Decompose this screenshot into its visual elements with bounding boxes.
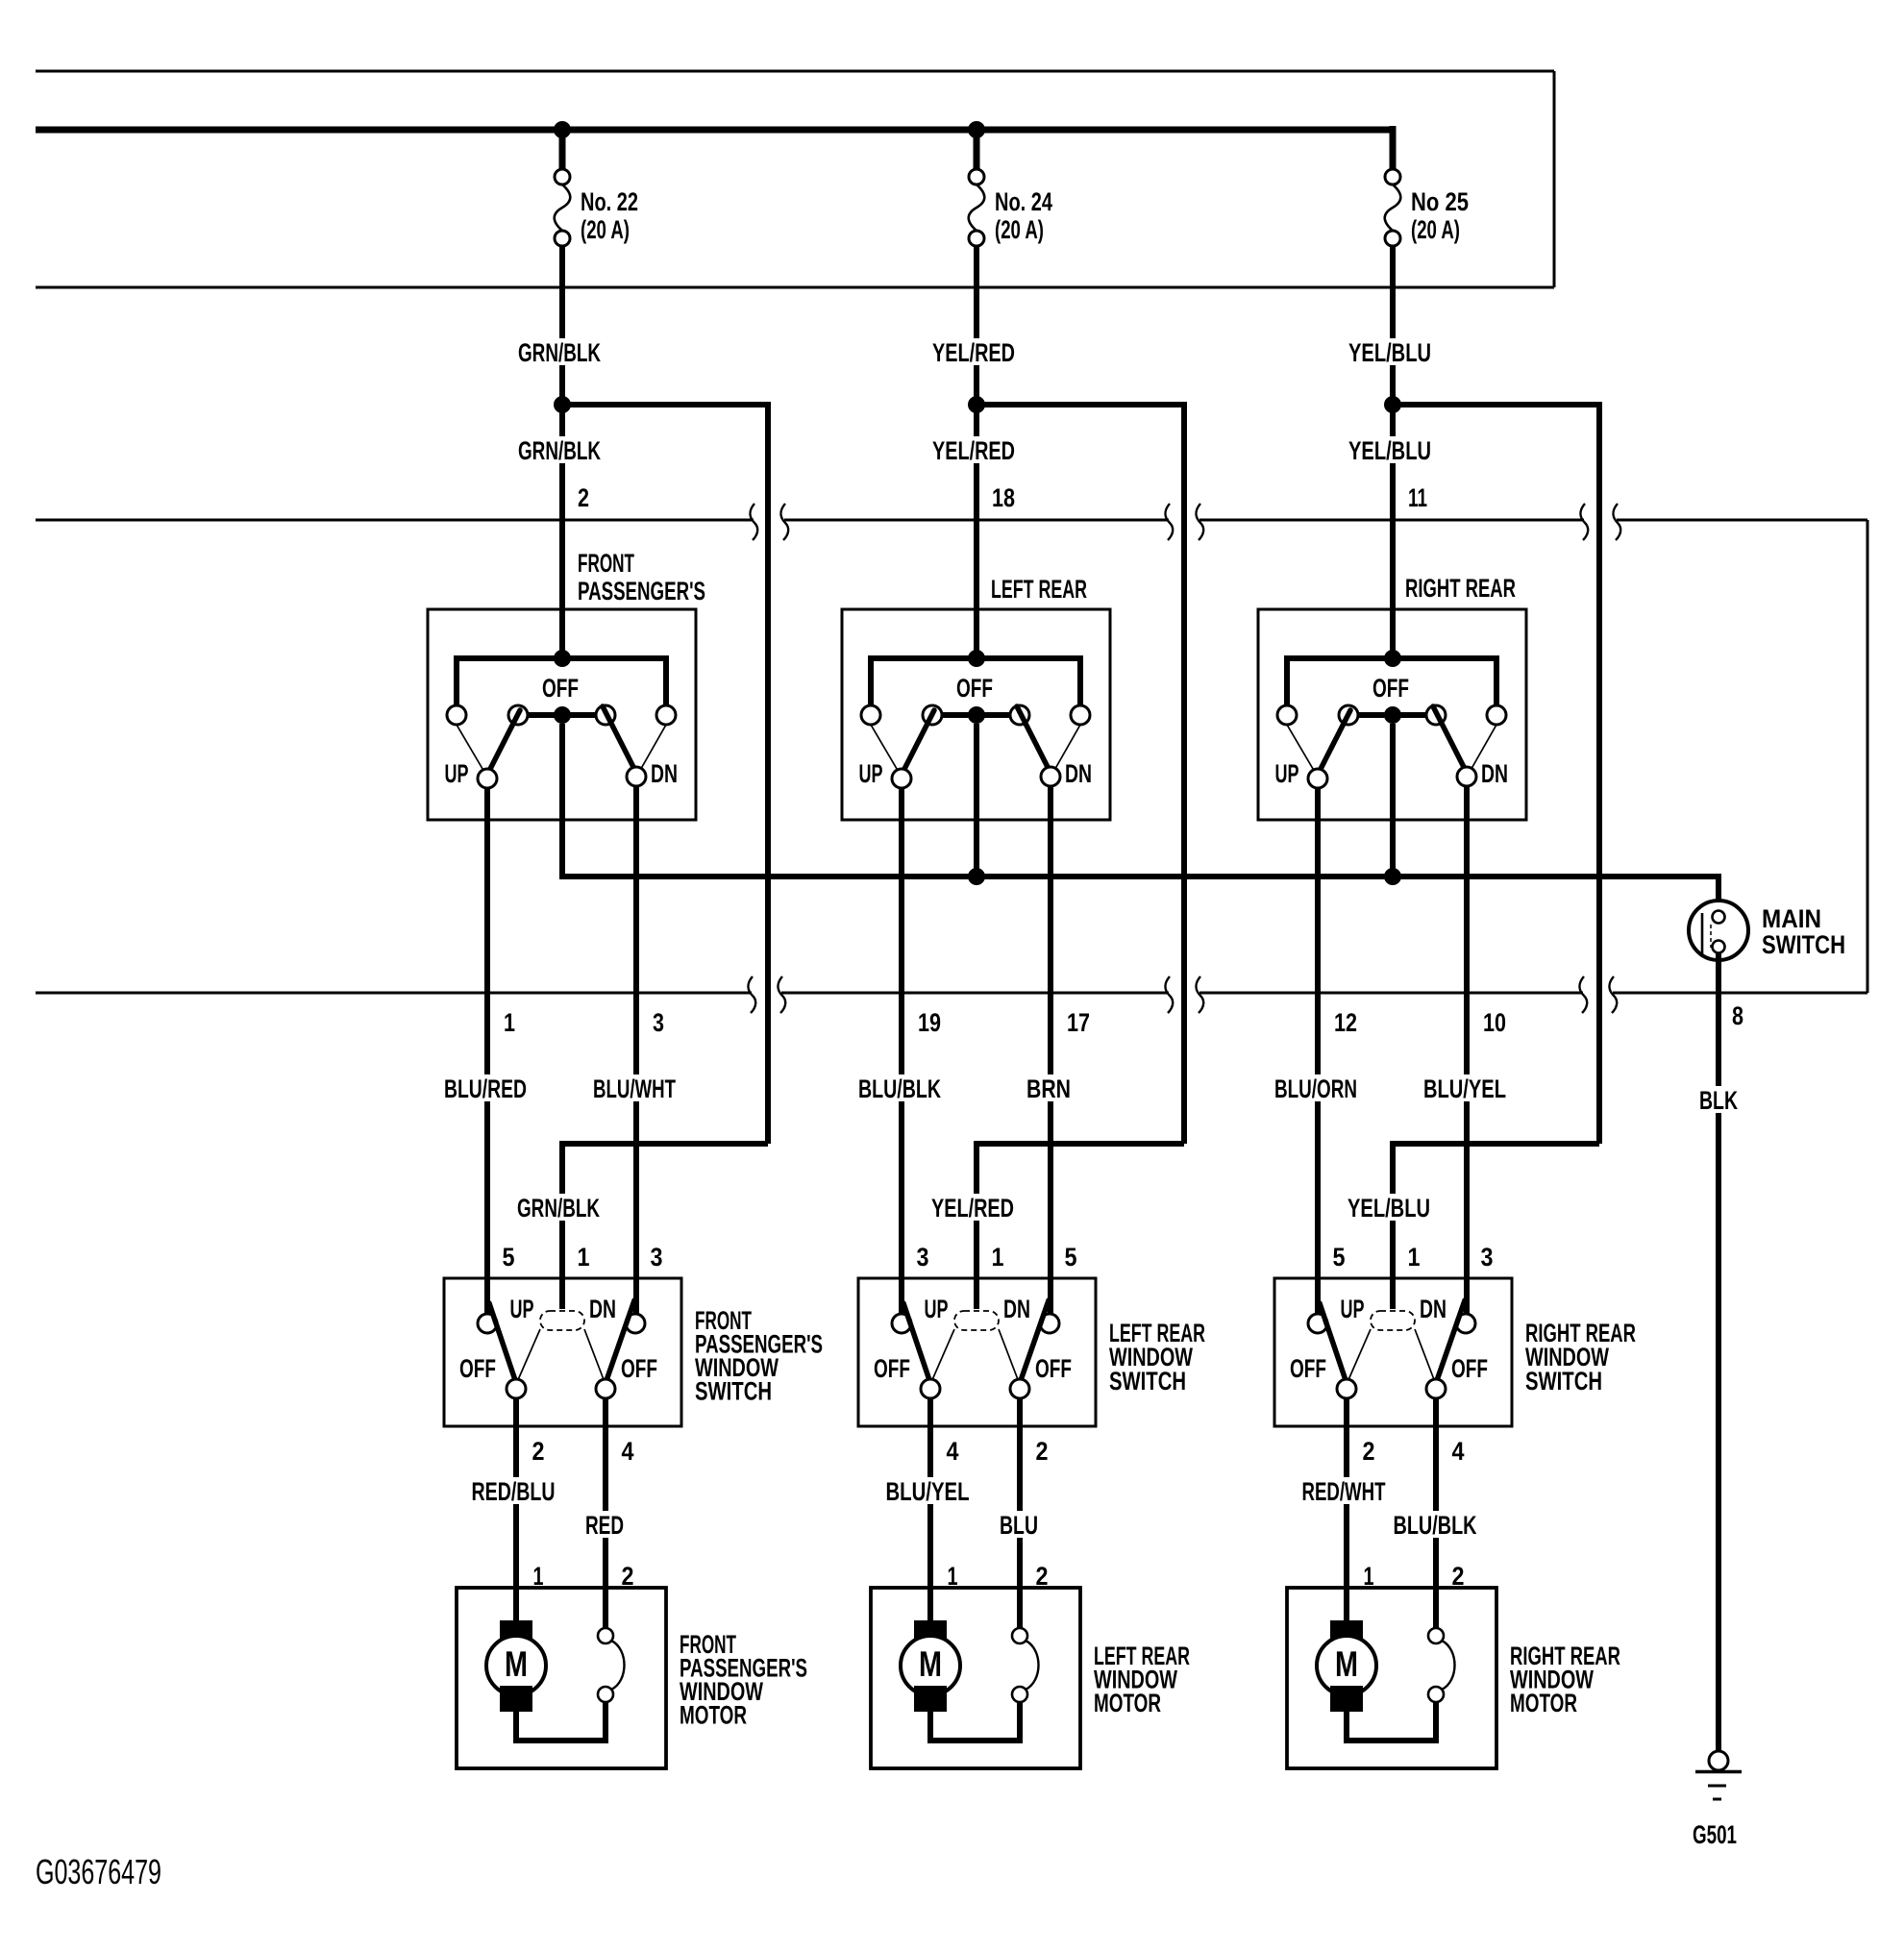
svg-text:BLK: BLK [1699, 1086, 1738, 1115]
wire BLU/RED (front passenger UP) [484, 788, 490, 1315]
pin 2 (left rear motor) [1036, 1562, 1049, 1591]
svg-text:MOTOR: MOTOR [1094, 1689, 1161, 1717]
svg-text:3: 3 [1481, 1243, 1494, 1272]
svg-text:(20 A): (20 A) [1411, 215, 1460, 244]
wire label YEL/RED (window feed) [928, 1194, 1017, 1222]
wire bus to fuse No 25 [1390, 126, 1397, 170]
svg-text:YEL/BLU: YEL/BLU [1348, 338, 1431, 367]
wire label YEL/BLU (window feed) [1345, 1194, 1433, 1222]
svg-text:3: 3 [651, 1243, 663, 1272]
svg-text:BLU/BLK: BLU/BLK [858, 1074, 941, 1103]
fuse box right boundary [1553, 71, 1556, 287]
fuse No 25 (20 A) [1385, 169, 1469, 246]
svg-text:2: 2 [1363, 1437, 1375, 1466]
connector line C (upper harness connector) [36, 519, 1867, 522]
fuse No. 24 (20 A) [969, 169, 1052, 246]
wire right rear switch common to main-switch bus [1390, 724, 1396, 879]
svg-text:RED/WHT: RED/WHT [1302, 1477, 1386, 1506]
svg-text:RIGHT REAR: RIGHT REAR [1405, 574, 1516, 603]
pin 2 (front passenger switch feed) [578, 483, 589, 512]
pin 5 (left rear window switch) [1065, 1243, 1077, 1272]
svg-text:UP: UP [1341, 1295, 1365, 1323]
pin 2 (front passenger window switch out) [532, 1437, 545, 1466]
fuse box bottom boundary [36, 286, 1554, 289]
wire BLU/YEL window switch to motor [927, 1398, 933, 1626]
junction dot GRN/BLK branch [554, 396, 571, 413]
wire label GRN/BLK (upper) [516, 338, 605, 367]
wire RED/WHT window switch to motor [1344, 1398, 1349, 1626]
wire YEL/BLU fuse No 25 to right rear switch [1390, 246, 1396, 661]
wire label YEL/BLU (upper) [1347, 338, 1435, 367]
svg-text:OFF: OFF [874, 1354, 910, 1383]
wire BLU/WHT (front passenger DN) [633, 786, 639, 1315]
pin 3 [653, 1008, 664, 1037]
node front passenger window motor label [680, 1630, 807, 1730]
svg-text:DN: DN [1420, 1295, 1447, 1323]
pin 12 [1334, 1008, 1357, 1037]
wire label BLU [976, 1511, 1064, 1540]
wire BLU/BLK (left rear UP) [899, 788, 904, 1315]
break marks lower connector line [748, 976, 1617, 1013]
wire label BLU/YEL [885, 1477, 976, 1506]
wire label YEL/RED (upper) [930, 338, 1019, 367]
svg-text:GRN/BLK: GRN/BLK [517, 1194, 600, 1222]
svg-text:GRN/BLK: GRN/BLK [518, 436, 601, 465]
power bus wire [36, 127, 1396, 134]
node right rear switch title [1405, 574, 1516, 603]
node front passenger window switch label [695, 1306, 823, 1406]
pin 1 (front passenger motor) [533, 1562, 544, 1591]
switch left rear window switch [858, 1278, 1096, 1426]
wire BLU/BLK window switch to motor [1433, 1398, 1439, 1628]
node front passenger switch title [578, 549, 705, 605]
svg-text:SWITCH: SWITCH [1109, 1367, 1186, 1395]
svg-text:GRN/BLK: GRN/BLK [518, 338, 601, 367]
svg-text:OFF: OFF [621, 1354, 657, 1383]
junction dot YEL/BLU branch [1384, 396, 1401, 413]
pin 17 [1067, 1008, 1090, 1037]
pin 4 (front passenger window switch out) [622, 1437, 634, 1466]
pin 5 (right rear window switch) [1333, 1243, 1346, 1272]
pin 11 (right rear switch feed) [1408, 483, 1427, 512]
svg-text:1: 1 [504, 1008, 515, 1037]
junction dot YEL/RED branch [968, 396, 985, 413]
svg-text:DN: DN [651, 759, 678, 788]
svg-text:MOTOR: MOTOR [680, 1701, 747, 1730]
pin 2 (front passenger motor) [622, 1562, 634, 1591]
svg-text:MAIN: MAIN [1762, 904, 1821, 933]
wire YEL/BLU branch to right rear window switch [1393, 402, 1599, 1309]
svg-text:YEL/BLU: YEL/BLU [1348, 1194, 1430, 1222]
wire YEL/RED fuse No. 24 to left rear switch [974, 246, 979, 661]
svg-text:BLU/WHT: BLU/WHT [593, 1074, 676, 1103]
main switch assembly right boundary [1867, 520, 1869, 993]
motor front passenger window motor [457, 1588, 666, 1768]
svg-text:SWITCH: SWITCH [1762, 930, 1845, 959]
motor right rear window motor [1287, 1588, 1496, 1768]
svg-text:(20 A): (20 A) [995, 215, 1044, 244]
svg-text:No. 22: No. 22 [581, 187, 638, 216]
wire bus to fuse No. 22 [559, 126, 566, 170]
motor left rear window motor [871, 1588, 1080, 1768]
pin 4 (right rear window switch out) [1452, 1437, 1465, 1466]
wire label GRN/BLK (window feed) [514, 1194, 603, 1222]
pin 1 [504, 1008, 515, 1037]
svg-text:3: 3 [917, 1243, 929, 1272]
node left rear window switch label [1109, 1319, 1205, 1395]
wire label BLU/BLK [1392, 1511, 1480, 1540]
junction dot left rear common [968, 868, 985, 885]
wire label BRN [1006, 1074, 1095, 1103]
wire label GRN/BLK (lower) [516, 436, 605, 465]
svg-text:OFF: OFF [1372, 674, 1409, 703]
svg-text:4: 4 [1452, 1437, 1465, 1466]
pin 3 (right rear window switch) [1481, 1243, 1494, 1272]
svg-text:4: 4 [622, 1437, 634, 1466]
svg-text:YEL/BLU: YEL/BLU [1348, 436, 1431, 465]
svg-text:UP: UP [510, 1295, 534, 1323]
wire BRN (left rear DN) [1048, 786, 1053, 1315]
wire label BLU/RED [443, 1074, 532, 1103]
svg-text:5: 5 [503, 1243, 515, 1272]
wire label YEL/BLU (lower) [1347, 436, 1435, 465]
svg-text:M: M [919, 1644, 942, 1684]
svg-text:1: 1 [1408, 1243, 1421, 1272]
wire left rear switch common to main-switch bus [974, 724, 979, 879]
svg-text:FRONT: FRONT [578, 549, 634, 578]
wire label BLU/WHT [592, 1074, 680, 1103]
pin 19 [918, 1008, 941, 1037]
svg-text:OFF: OFF [1035, 1354, 1072, 1383]
svg-text:2: 2 [578, 483, 589, 512]
svg-text:PASSENGER'S: PASSENGER'S [578, 577, 705, 605]
wire label RED [561, 1511, 650, 1540]
svg-text:3: 3 [653, 1008, 664, 1037]
pin 1 (left rear window switch) [992, 1243, 1004, 1272]
wire RED/BLU window switch to motor [513, 1398, 519, 1626]
svg-text:DN: DN [1065, 759, 1092, 788]
node MAIN SWITCH label [1762, 904, 1845, 959]
switch front passenger window switch [444, 1278, 681, 1426]
wire BLK main switch to ground [1716, 952, 1721, 1753]
svg-text:BLU/YEL: BLU/YEL [886, 1477, 970, 1506]
switch right rear (main switch assembly) [1258, 609, 1526, 820]
svg-text:SWITCH: SWITCH [695, 1377, 772, 1406]
wire label YEL/RED (lower) [930, 436, 1019, 465]
svg-text:OFF: OFF [956, 674, 993, 703]
pin 10 [1483, 1008, 1506, 1037]
svg-text:BLU/RED: BLU/RED [444, 1074, 527, 1103]
pin 1 (front passenger window switch) [578, 1243, 590, 1272]
svg-text:BLU/BLK: BLU/BLK [1394, 1511, 1477, 1540]
switch front passenger (main switch assembly) [428, 609, 696, 820]
svg-text:17: 17 [1067, 1008, 1090, 1037]
svg-text:12: 12 [1334, 1008, 1357, 1037]
main switch U1 [1689, 901, 1748, 960]
wire label RED/WHT [1301, 1477, 1392, 1506]
svg-text:YEL/RED: YEL/RED [932, 436, 1015, 465]
switch left rear (main switch assembly) [842, 609, 1110, 820]
svg-text:10: 10 [1483, 1008, 1506, 1037]
pin 2 (right rear window switch out) [1363, 1437, 1375, 1466]
svg-text:BLU: BLU [1000, 1511, 1038, 1540]
svg-text:RED: RED [585, 1511, 624, 1540]
svg-text:UP: UP [445, 759, 469, 788]
svg-text:MOTOR: MOTOR [1510, 1689, 1577, 1717]
svg-text:DN: DN [1481, 759, 1508, 788]
pin 3 (left rear window switch) [917, 1243, 929, 1272]
svg-text:1: 1 [992, 1243, 1004, 1272]
svg-text:UP: UP [859, 759, 883, 788]
svg-text:OFF: OFF [542, 674, 579, 703]
wire BLU window switch to motor [1017, 1398, 1023, 1628]
junction dot bus / fuse No. 22 [554, 121, 571, 138]
fuse box top boundary [36, 70, 1554, 73]
wire RED window switch to motor [603, 1398, 608, 1628]
svg-text:11: 11 [1408, 483, 1427, 512]
node right rear window motor label [1510, 1642, 1620, 1717]
ground G501 [1693, 1751, 1742, 1849]
break marks upper connector line [750, 504, 1620, 540]
pin 4 (left rear window switch out) [947, 1437, 959, 1466]
wire label BLU/YEL [1422, 1074, 1511, 1103]
svg-text:No 25: No 25 [1411, 187, 1469, 216]
svg-text:YEL/RED: YEL/RED [932, 338, 1015, 367]
wire label BLU/BLK [857, 1074, 946, 1103]
node left rear switch title [991, 575, 1087, 604]
svg-text:DN: DN [589, 1295, 616, 1323]
svg-text:18: 18 [992, 483, 1015, 512]
svg-text:19: 19 [918, 1008, 941, 1037]
junction dot right rear common [1384, 868, 1401, 885]
svg-text:OFF: OFF [1290, 1354, 1326, 1383]
wire bus to MAIN SWITCH pin [1716, 877, 1721, 911]
svg-text:UP: UP [925, 1295, 949, 1323]
wire YEL/RED branch to left rear window switch [977, 402, 1184, 1309]
svg-text:1: 1 [578, 1243, 590, 1272]
svg-text:SWITCH: SWITCH [1525, 1367, 1602, 1395]
pin 1 (left rear motor) [948, 1562, 958, 1591]
svg-text:5: 5 [1065, 1243, 1077, 1272]
node right rear window switch label [1525, 1319, 1636, 1395]
svg-text:5: 5 [1333, 1243, 1346, 1272]
wire main switch bus (switch commons to MAIN SWITCH) [559, 874, 1721, 877]
switch right rear window switch [1274, 1278, 1512, 1426]
svg-text:OFF: OFF [1451, 1354, 1488, 1383]
node drawing number G03676479 [36, 1852, 161, 1891]
svg-text:(20 A): (20 A) [581, 215, 630, 244]
wire bus to fuse No. 24 [974, 126, 980, 170]
fuse No. 22 (20 A) [555, 169, 638, 246]
svg-text:UP: UP [1275, 759, 1299, 788]
svg-text:OFF: OFF [459, 1354, 496, 1383]
svg-text:8: 8 [1732, 1001, 1743, 1030]
pin 18 (left rear switch feed) [992, 483, 1015, 512]
svg-text:2: 2 [532, 1437, 545, 1466]
wire BLU/YEL (right rear DN) [1464, 786, 1470, 1315]
svg-text:BRN: BRN [1026, 1074, 1071, 1103]
pin 3 (front passenger window switch) [651, 1243, 663, 1272]
wire GRN/BLK branch to front passenger window switch [562, 402, 768, 1309]
svg-text:4: 4 [947, 1437, 959, 1466]
svg-text:No. 24: No. 24 [995, 187, 1052, 216]
svg-text:RED/BLU: RED/BLU [472, 1477, 556, 1506]
pin 8 (main switch ground) [1732, 1001, 1743, 1030]
pin 1 (right rear window switch) [1408, 1243, 1421, 1272]
svg-text:G501: G501 [1693, 1820, 1737, 1849]
pin 2 (left rear window switch out) [1036, 1437, 1049, 1466]
svg-text:YEL/RED: YEL/RED [931, 1194, 1014, 1222]
svg-text:DN: DN [1003, 1295, 1030, 1323]
junction dot bus / fuse No. 24 [968, 121, 985, 138]
wire BLU/ORN (right rear UP) [1315, 788, 1321, 1315]
svg-text:2: 2 [1036, 1437, 1049, 1466]
pin 5 (front passenger window switch) [503, 1243, 515, 1272]
svg-text:BLU/YEL: BLU/YEL [1423, 1074, 1506, 1103]
svg-text:M: M [505, 1644, 528, 1684]
wire label BLU/ORN [1273, 1074, 1362, 1103]
wire label RED/BLU [471, 1477, 561, 1506]
wire label BLK [1695, 1086, 1742, 1115]
wire front passenger switch common to main-switch bus [559, 724, 565, 879]
node left rear window motor label [1094, 1642, 1190, 1717]
svg-text:G03676479: G03676479 [36, 1852, 161, 1891]
svg-text:M: M [1335, 1644, 1358, 1684]
svg-text:BLU/ORN: BLU/ORN [1274, 1074, 1357, 1103]
svg-text:LEFT REAR: LEFT REAR [991, 575, 1087, 604]
pin 1 (right rear motor) [1364, 1562, 1374, 1591]
connector line (lower harness connector) [36, 992, 1867, 995]
pin 2 (right rear motor) [1452, 1562, 1465, 1591]
wire GRN/BLK fuse No. 22 to front passenger switch [559, 246, 565, 661]
